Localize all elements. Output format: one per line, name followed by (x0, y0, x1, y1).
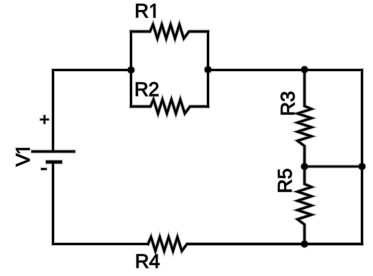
node E junction dot (link to outer rail) (359, 163, 366, 170)
node C junction dot (top of R3) (301, 66, 308, 73)
label R4 (137, 254, 160, 267)
node B junction dot (205, 66, 212, 73)
resistor R1 (131, 25, 208, 39)
label R3 (281, 92, 295, 115)
wire: middle link from node D to outer rail (305, 166, 363, 168)
wire: right outer rail (361, 70, 363, 244)
label R5 (278, 169, 292, 192)
resistor R5 (298, 167, 312, 245)
wire: parallel loop left rail (130, 32, 132, 107)
node A junction dot (128, 67, 135, 74)
battery V1 long plate (positive) (33, 150, 75, 152)
node F junction dot (bottom of R5) (301, 241, 308, 248)
battery plus sign (41, 116, 48, 123)
wire: battery negative lead down to bottom-left corner (53, 162, 148, 244)
resistor R2 (131, 100, 208, 114)
node D junction dot (R3/R5 junction) (301, 163, 308, 170)
label V1 (16, 148, 29, 166)
battery V1 short plate (negative) (48, 161, 61, 164)
resistor R3 (298, 70, 312, 167)
wire: battery positive lead up to top wire and right to node A (53, 70, 131, 151)
resistor R4 (148, 237, 362, 251)
wire: node B to top-right corner (208, 69, 362, 71)
label R2 (136, 82, 158, 96)
wire: parallel loop right rail (207, 32, 209, 107)
label R1 (136, 4, 155, 17)
battery minus sign (42, 168, 46, 170)
